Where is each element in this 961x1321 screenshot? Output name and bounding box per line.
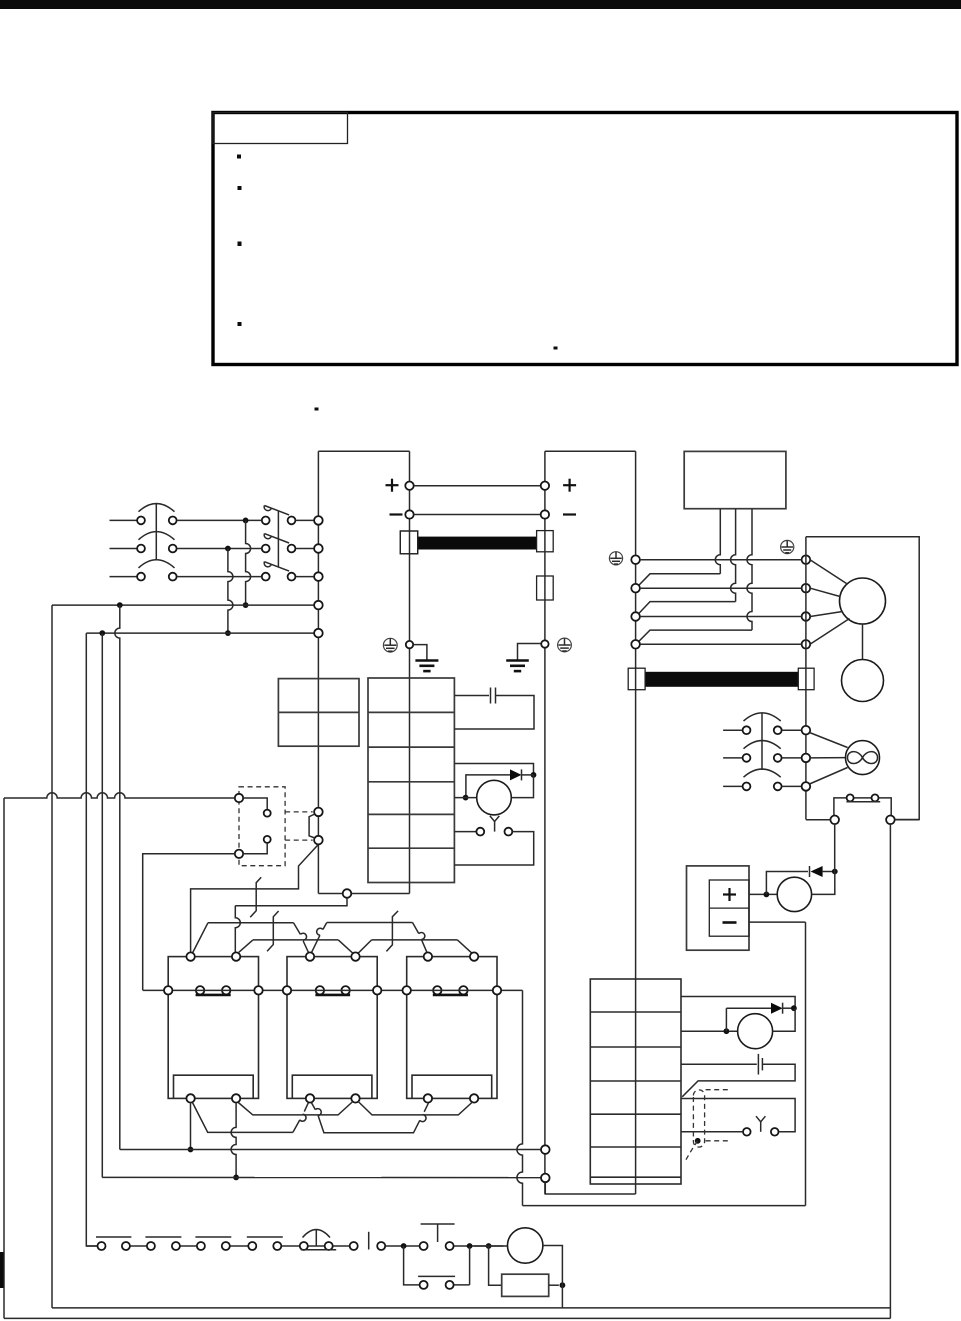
capacitor C2 — [757, 1054, 759, 1075]
battery + label — [723, 893, 736, 895]
wire bus link — [318, 893, 409, 895]
wire M2 right — [812, 872, 835, 895]
bypass contact a — [420, 1281, 428, 1289]
winding box 3 tap link — [433, 994, 468, 997]
bus B1 vertical — [317, 451, 319, 893]
diode D1 — [510, 769, 522, 780]
pushbutton PB1 — [421, 1223, 455, 1225]
bypass branch — [404, 1246, 420, 1285]
winding box 1 inner frame — [174, 1075, 254, 1098]
NC contact bar 1 — [96, 1236, 131, 1238]
NC contact bar 4 — [247, 1236, 283, 1238]
scan artifact — [0, 1252, 4, 1288]
protective earth symbol machine — [781, 540, 794, 553]
motor wire row2 — [640, 587, 802, 589]
wire to controller — [517, 990, 523, 1205]
bypass bar — [418, 1275, 455, 1277]
aux contact b — [872, 794, 879, 801]
left frame vertical — [3, 798, 5, 1318]
junction brake dashed — [695, 1138, 701, 1144]
interlock contact a — [264, 810, 271, 817]
motor lead 2 drop — [231, 1103, 236, 1178]
earth wire right — [518, 644, 541, 661]
motor fan-in 1 — [810, 560, 847, 584]
junction on row4 — [243, 602, 249, 608]
wire inverter N path — [191, 844, 319, 952]
wire aux left drop — [834, 824, 836, 871]
DC rail right unit — [545, 450, 636, 452]
wire battery - — [749, 921, 806, 923]
wire brake switch row — [681, 1131, 743, 1133]
winding box 1 tap a — [196, 986, 204, 994]
motor fan-in 3 — [810, 612, 842, 617]
interlock terminal 1 — [235, 794, 243, 802]
motor terminal 1 — [802, 555, 811, 564]
motor terminal 3 — [802, 612, 811, 621]
motor wire row1 — [640, 559, 802, 561]
lever switch symbol — [368, 1232, 370, 1250]
interlock wire lower — [243, 843, 267, 854]
machine enclosure — [806, 537, 919, 820]
wire fan row — [454, 797, 476, 799]
motor fan-in 4 — [810, 619, 850, 645]
brake dashed tail — [685, 1141, 698, 1163]
interlock dashed box — [239, 787, 285, 866]
bus terminal j2 — [314, 836, 323, 845]
wire M4 out — [543, 1246, 563, 1308]
hoist cable lug right — [798, 668, 814, 690]
PSU-R bus — [544, 451, 546, 1194]
notice title box — [213, 113, 348, 144]
controller box right side — [805, 922, 807, 1206]
junction motor lead 1 — [188, 1147, 194, 1153]
encoder link — [862, 624, 864, 660]
wire - link — [414, 514, 541, 516]
lead 3 jog wire — [638, 630, 753, 643]
junction on row5 — [225, 630, 231, 636]
winding common t2 — [254, 986, 262, 994]
blade A2-T5 — [413, 923, 419, 934]
winding box 2 outline — [287, 957, 377, 1099]
terminal + right — [541, 482, 549, 490]
bypass contact b — [446, 1281, 454, 1289]
winding box 2 terminal U2 — [306, 952, 314, 960]
feeder wire x103 — [101, 633, 103, 1177]
thermo contact b — [505, 828, 513, 836]
winding box 1 outline — [168, 957, 258, 1099]
winding box 3 tap b — [459, 986, 467, 994]
wire row S — [177, 548, 262, 550]
winding common left terminal — [164, 986, 172, 994]
wire inverter P path — [235, 906, 240, 953]
bus terminal j1 — [314, 808, 323, 817]
winding box 1 tap b — [222, 986, 230, 994]
wire diode2 branch — [766, 872, 808, 895]
bridge deep T1-T3 — [192, 1102, 293, 1132]
junction brake — [724, 1028, 730, 1034]
PSU-L bus through box — [409, 678, 411, 883]
NC contact bar 3 — [195, 1236, 231, 1238]
fuse F2 body — [537, 576, 554, 600]
lamp fan-in 2 — [810, 757, 845, 759]
brake release motor M4 — [508, 1228, 543, 1263]
terminal - right — [541, 510, 549, 518]
bridge deep T3-T5 — [312, 1103, 316, 1110]
junction battery + — [764, 892, 770, 898]
bus A1 — [208, 922, 294, 924]
blade B-T6 — [457, 940, 472, 954]
winding box 2 terminal V2 — [351, 952, 359, 960]
encoder E — [842, 660, 884, 702]
ground terminal right — [541, 640, 548, 647]
bullet 1 — [237, 155, 241, 159]
control chain wire — [86, 1245, 97, 1247]
winding box 3 outline — [407, 957, 497, 1099]
fan motor M1 — [477, 780, 512, 815]
brake coil circuit wire — [474, 1245, 508, 1247]
winding box 1 terminal V1 — [232, 952, 240, 960]
label + right — [563, 484, 576, 486]
brake sensor Y — [756, 1116, 765, 1122]
wire release loop — [681, 1099, 795, 1132]
bus B1 terminal 3 — [314, 572, 323, 581]
thermo contact a — [476, 828, 484, 836]
winding box 3 inner frame — [412, 1075, 492, 1098]
notice box frame — [213, 113, 957, 365]
winding box 1 lower terminal b — [232, 1094, 240, 1102]
wire + link — [414, 485, 541, 487]
junction fan left — [463, 795, 469, 801]
winding box 2 lower terminal a — [306, 1094, 314, 1102]
transformer lead 1 — [715, 509, 720, 574]
wire interlock lower out — [143, 854, 235, 991]
winding box 3 lower terminal a — [424, 1094, 432, 1102]
winding box 1 tap link — [196, 994, 231, 997]
bus B1 terminal 5 — [314, 629, 323, 638]
frame wire outer — [4, 1317, 890, 1319]
wire P path horiz — [235, 905, 347, 907]
motor fan-in 2 — [810, 588, 840, 596]
wire diode3 drop — [725, 1008, 727, 1031]
wire row 4 — [52, 604, 314, 606]
feeder x103 corner — [101, 1176, 104, 1178]
DC link lug left — [400, 531, 417, 554]
motor terminal 2 — [802, 584, 811, 593]
terminal bus link — [343, 889, 352, 898]
feeder wire x52 — [51, 605, 53, 1308]
junction resistor — [560, 1282, 566, 1288]
hoist cable lug left — [628, 668, 645, 690]
gate lead G1 — [250, 877, 261, 917]
terminal - left — [405, 510, 413, 518]
bus B1 terminal 1 — [314, 516, 323, 525]
junction chain 2 — [467, 1243, 473, 1249]
transformer box — [684, 451, 786, 508]
wire cap row — [681, 1063, 757, 1065]
wire M3 right — [773, 1008, 796, 1031]
thermal sensor Y — [490, 816, 499, 822]
junction row S — [225, 546, 231, 552]
wire sense tap — [235, 898, 347, 906]
lamp fan-in 1 — [810, 733, 848, 748]
wire thermo left — [454, 831, 476, 833]
motor wire L1 — [120, 1149, 541, 1151]
wire thermo loop — [454, 832, 533, 865]
winding box 3 terminal U3 — [424, 952, 432, 960]
wire bus to aux — [806, 819, 831, 821]
lead 1 jog wire — [638, 574, 721, 587]
earth symbol right — [506, 659, 529, 662]
motor bus — [805, 537, 807, 820]
wire row 5 — [86, 632, 314, 634]
NC contact bar 2 — [145, 1236, 181, 1238]
motor wire L2 terminal — [541, 1174, 550, 1183]
period dot in box — [554, 347, 558, 350]
circuit breaker CB1 (3-pole) — [110, 519, 137, 521]
winding common t5 — [403, 986, 411, 994]
battery inner box — [709, 880, 749, 936]
ground terminal left — [406, 641, 413, 648]
battery charger box — [687, 866, 750, 950]
winding common wire (row2) — [143, 989, 523, 991]
junction diode3 — [791, 1005, 797, 1011]
hoist cable bar — [645, 672, 798, 687]
winding box 2 tap link — [315, 994, 350, 997]
wire interlock to frame — [4, 793, 235, 798]
wire battery + — [749, 893, 777, 895]
gate lead G2 — [267, 911, 279, 951]
MC1 mechanical link — [277, 511, 279, 568]
wire fan feed — [454, 764, 533, 775]
wire brake top — [681, 997, 795, 1009]
wire brake motor row — [681, 1030, 738, 1032]
hoist motor M — [840, 578, 886, 624]
brake dashed lead bottom — [706, 1140, 728, 1142]
winding box 3 terminal V3 — [470, 952, 478, 960]
DC rail left unit — [318, 450, 409, 452]
diode D3 — [771, 1003, 783, 1014]
wire fan right — [511, 775, 533, 798]
wire capacitor loop — [454, 696, 534, 730]
fire switch underbar — [301, 1249, 336, 1251]
junction row4 left — [117, 602, 123, 608]
wire resistor drop — [489, 1246, 502, 1285]
wire resistor out — [549, 1284, 559, 1286]
contactor MC1 main contacts — [262, 517, 270, 525]
fire switch symbol — [303, 1230, 331, 1238]
connector bracket — [309, 814, 315, 838]
blade T1-A1 — [193, 923, 209, 953]
battery - label — [723, 921, 737, 924]
protective earth symbol motor — [609, 552, 622, 565]
feeder wire x120 — [115, 605, 120, 1149]
blade A2-T3 — [323, 923, 327, 930]
aux terminal left — [830, 816, 839, 825]
motor wire L1 terminal — [541, 1145, 550, 1154]
interlock terminal 2 — [235, 850, 243, 858]
resistor RB — [502, 1274, 549, 1296]
motor wire row3 — [640, 616, 802, 618]
bullet 3 — [238, 242, 242, 247]
safety chain drop — [889, 824, 891, 1318]
winding box 2 lower terminal b — [351, 1094, 359, 1102]
winding box 3 lower terminal b — [470, 1094, 478, 1102]
inverter box — [368, 678, 454, 883]
junction row R — [243, 518, 249, 524]
wire L terminals link — [545, 1182, 635, 1194]
winding box 1 terminal U1 — [186, 952, 194, 960]
CB2 bus terminal 2 — [802, 754, 811, 763]
bullet 2 — [238, 186, 242, 190]
fuse F1 body — [400, 531, 417, 554]
aux contact bar — [846, 801, 880, 803]
CB1 trip link — [155, 504, 157, 560]
junction motor lead 2 — [233, 1175, 239, 1181]
converter box — [278, 679, 359, 747]
bus B2 vertical — [635, 451, 637, 1194]
blade T4-B — [358, 940, 371, 953]
wire row T — [177, 576, 262, 578]
wire diode3 row — [726, 1007, 771, 1009]
gate lead G3 — [386, 911, 398, 952]
winding common t4 — [373, 986, 381, 994]
label + left — [386, 484, 399, 486]
CB2 bus terminal 1 — [802, 726, 811, 735]
lead 2 jog wire — [638, 602, 736, 615]
aux contact box — [834, 798, 891, 820]
CB2 trip link — [761, 714, 763, 771]
bus B2 terminal 1 — [631, 555, 640, 564]
terminal + left — [405, 482, 413, 490]
PSU-L bus lower — [409, 883, 411, 894]
motor wire L2 — [102, 1176, 541, 1178]
earth symbol left — [415, 659, 438, 662]
protective earth symbol right — [558, 638, 572, 652]
feeder wire x86 — [86, 633, 97, 1246]
protective earth symbol left — [383, 638, 397, 652]
transformer lead 3 — [747, 509, 752, 630]
bus B1 terminal 2 — [314, 544, 323, 553]
controller box bottom — [523, 1205, 806, 1207]
wire capacitor top — [454, 695, 489, 697]
frame wire inner — [52, 1307, 890, 1309]
interlock dashed lead lower — [285, 839, 313, 841]
blade A1-T3 — [294, 923, 301, 935]
winding box 2 tap b — [341, 986, 349, 994]
winding box 2 inner frame — [292, 1075, 372, 1098]
bus A2 — [327, 922, 413, 924]
brake motor M3 — [738, 1014, 773, 1049]
charge motor M2 — [777, 877, 811, 911]
brake dashed capsule — [693, 1090, 704, 1147]
lamp fan-in 3 — [810, 768, 848, 785]
wire aux to frame — [895, 819, 920, 821]
circuit breaker CB2 (3-pole) — [723, 729, 742, 731]
winding common t6 — [493, 986, 501, 994]
wire row R — [177, 519, 262, 521]
bullet 4 — [238, 322, 242, 326]
diode D2 — [809, 866, 811, 877]
wire diode branch — [466, 775, 510, 798]
tap wire from row S — [228, 549, 233, 634]
bus B2 terminal 3 — [631, 612, 640, 621]
junction diode2 — [832, 869, 838, 875]
label - left — [390, 513, 403, 515]
bus B low — [253, 939, 338, 941]
interlock wire upper — [243, 798, 267, 810]
transformer lead 2 — [731, 509, 736, 602]
tap wire from row R — [246, 520, 251, 605]
wire cap loop — [682, 1064, 795, 1097]
terminal block table — [590, 979, 681, 1184]
page top black bar — [0, 0, 961, 9]
brake contact b — [771, 1128, 779, 1136]
winding common t3 — [283, 986, 291, 994]
lamp HL — [846, 741, 880, 775]
DC link cable — [418, 537, 537, 550]
bus B2 terminal 4 — [631, 640, 640, 649]
winding box 3 tap a — [433, 986, 441, 994]
bus B1 terminal 4 — [314, 601, 323, 610]
junction chain 1 — [401, 1243, 407, 1249]
DC link lug right — [537, 531, 554, 552]
brake contact a — [743, 1128, 751, 1136]
junction chain 3 — [486, 1243, 492, 1249]
junction diode right — [531, 772, 537, 778]
motor lead 1 drop — [190, 1103, 192, 1150]
blade T2-B — [239, 940, 253, 952]
winding box 2 tap a — [316, 986, 324, 994]
junction row5 left — [99, 630, 105, 636]
blade B-T4 — [338, 940, 353, 953]
brake dashed lead top — [706, 1089, 728, 1091]
PSU-L bus — [409, 451, 411, 678]
aux terminal right — [886, 816, 895, 825]
bridge shallow T2-T4 — [238, 1102, 352, 1115]
bus B2 terminal 2 — [631, 584, 640, 593]
aux contact a — [847, 794, 854, 801]
winding box 1 lower terminal a — [186, 1094, 194, 1102]
motor wire row4 — [640, 643, 802, 645]
label - right — [563, 513, 576, 515]
bridge shallow T4-T6 — [358, 1102, 473, 1115]
CB2 bus terminal 3 — [802, 782, 811, 791]
earth wire left — [414, 645, 427, 661]
interlock contact b — [264, 836, 271, 843]
motor terminal 4 — [802, 640, 811, 649]
period dot below box — [315, 408, 319, 411]
capacitor C1 — [490, 688, 492, 704]
interlock dashed lead upper — [285, 811, 313, 813]
